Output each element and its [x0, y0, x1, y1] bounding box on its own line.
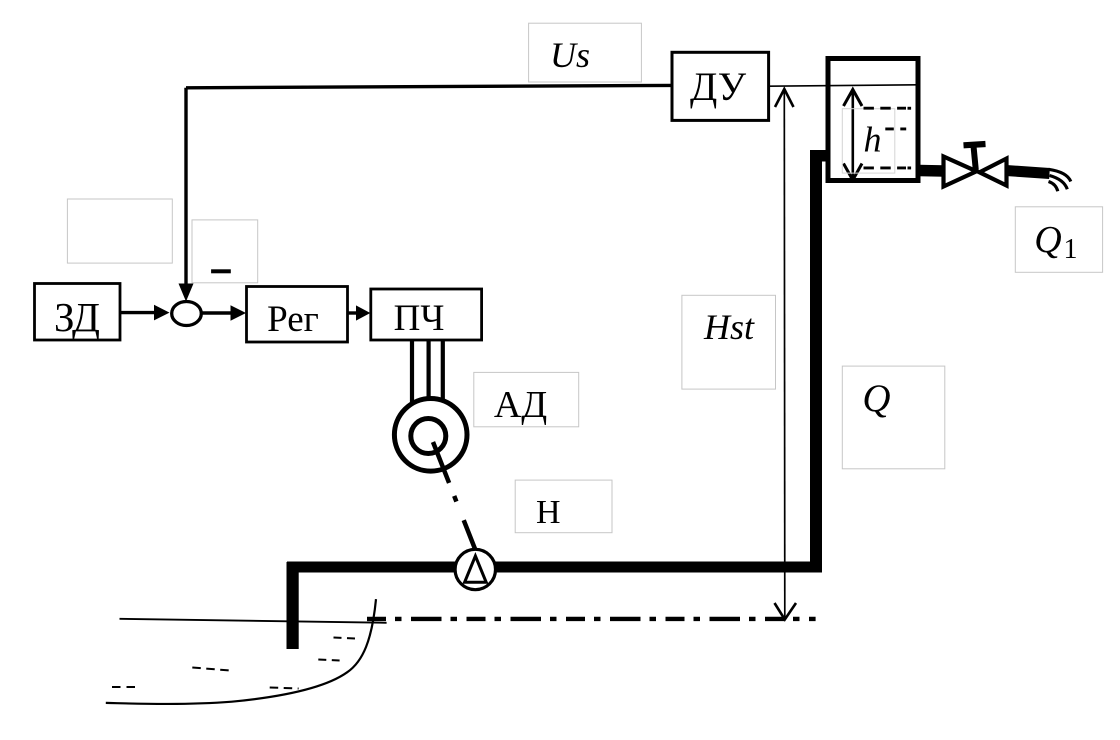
- tank measure arrow bottom chevron: [844, 164, 863, 181]
- valve handle T-bar: [964, 144, 986, 145]
- label box minus: [192, 220, 258, 283]
- svg-text:Q: Q: [862, 377, 890, 420]
- label box Q: [842, 366, 945, 469]
- wire arrow Reg to PCh: [348, 311, 358, 314]
- svg-text:Hst: Hst: [703, 307, 755, 347]
- water surface line: [120, 619, 387, 623]
- water spout curl 1: [1049, 169, 1071, 181]
- pipe stub into tank left wall: [810, 150, 828, 162]
- water dashes group 2: [192, 668, 230, 671]
- pipe horizontal pump discharge: [287, 562, 822, 573]
- pipe suction elbow down into reservoir: [287, 562, 299, 649]
- wire 3-phase line 2: [427, 341, 431, 401]
- svg-text:1: 1: [1064, 234, 1078, 265]
- pipe outlet tank to valve: [919, 165, 944, 177]
- wire feedback horizontal from DU to corner: [186, 85, 672, 87]
- pipe outlet after valve: [1006, 171, 1050, 174]
- pump N circle: [455, 549, 495, 589]
- dashed level line lower: [864, 166, 907, 169]
- svg-text:Рег: Рег: [267, 299, 319, 340]
- svg-text:АД: АД: [494, 384, 547, 426]
- svg-text:h: h: [864, 119, 882, 159]
- valve left triangle: [944, 157, 977, 187]
- centerline dash-dot axis: [367, 617, 816, 621]
- water dashes group 1: [112, 686, 136, 688]
- motor AD outer circle: [394, 399, 467, 472]
- label box AD: [474, 372, 579, 426]
- measure line Hst vertical thin: [783, 90, 786, 618]
- label box N: [515, 480, 612, 533]
- water dashes group 5: [318, 660, 339, 661]
- tank rectangle: [828, 59, 918, 181]
- pump N triangle: [465, 556, 487, 582]
- summing junction ellipse: [172, 302, 202, 326]
- wire arrow summing junction to Reg: [202, 311, 234, 314]
- minus sign: [211, 269, 231, 273]
- wire 3-phase line 3: [441, 341, 445, 404]
- block DU (level sensor): [672, 52, 769, 120]
- svg-text:ДУ: ДУ: [690, 64, 747, 109]
- svg-text:ПЧ: ПЧ: [394, 298, 445, 339]
- svg-text:Q: Q: [1034, 219, 1061, 261]
- arrowhead into summing junction: [179, 284, 194, 302]
- measure arrow Hst top chevron: [775, 89, 794, 107]
- svg-text:Us: Us: [550, 35, 590, 75]
- water dashes group 4: [334, 638, 357, 639]
- water spout curl 2: [1050, 176, 1068, 190]
- dashed level line upper: [864, 107, 907, 110]
- label box Us: [529, 23, 642, 82]
- faint box around h: [842, 109, 895, 173]
- block PCh (frequency converter): [371, 289, 482, 340]
- valve stem: [974, 146, 976, 170]
- empty label box top-left: [67, 199, 172, 263]
- svg-text:ЗД: ЗД: [54, 294, 100, 340]
- valve right triangle: [980, 159, 1007, 186]
- motor AD inner circle: [411, 419, 446, 454]
- shaft dash-dot motor to pump: [433, 442, 477, 554]
- tank measure arrow top chevron: [844, 90, 863, 107]
- label box Hst: [682, 295, 776, 389]
- label box Q1: [1015, 207, 1102, 272]
- water spout curl 3: [1049, 182, 1058, 192]
- wire thin sensor line DU to tank water level: [769, 85, 917, 86]
- pipe riser vertical up to tank: [810, 150, 822, 572]
- measure arrow Hst bottom chevron: [775, 603, 797, 620]
- water dashes group 3: [270, 688, 299, 689]
- block ZD (setpoint): [35, 284, 121, 341]
- wire feedback vertical down to summing junction: [184, 88, 187, 290]
- block Reg (regulator): [247, 287, 348, 343]
- wire 3-phase line 1 PCh to motor: [410, 341, 414, 403]
- reservoir bank curve: [106, 599, 376, 704]
- svg-text:Н: Н: [536, 494, 561, 531]
- wire arrow ZD to summing junction: [120, 311, 156, 314]
- dashed level line middle short: [885, 127, 906, 130]
- tank measure arrow h vertical line: [851, 90, 854, 179]
